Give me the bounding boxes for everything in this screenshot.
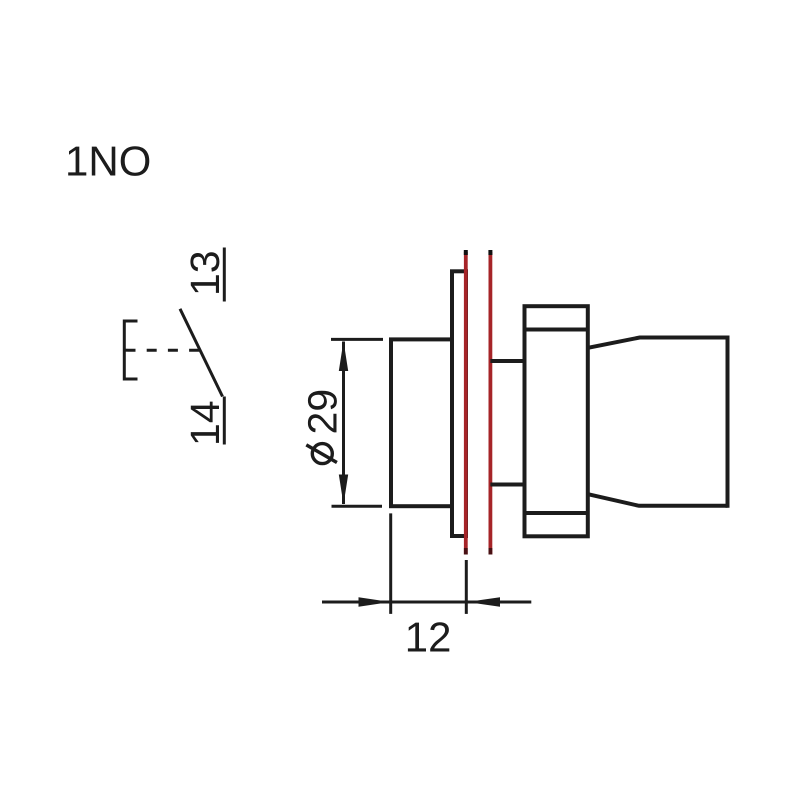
neck top line <box>490 359 526 363</box>
diameter symbol slash <box>306 445 337 463</box>
dim 29 arrowhead up <box>339 341 348 371</box>
contact symbol actuator bracket <box>124 321 137 379</box>
dim 29 arrowhead down <box>339 475 348 505</box>
mounting flange <box>452 271 466 536</box>
dim 29 top extension line <box>331 338 383 341</box>
contact symbol actuator dashed link <box>126 349 200 352</box>
dim 12 extension line left <box>389 513 392 614</box>
panel line 2 dark bottom tip <box>488 548 492 555</box>
terminal 14 lead <box>223 397 226 445</box>
label 14 <box>191 402 219 443</box>
dim 12 arrowhead right-pointing <box>359 597 391 606</box>
body (bushing) <box>525 306 588 536</box>
terminal 13 lead <box>223 248 226 302</box>
dim 12 dimension line <box>322 601 531 604</box>
panel line 1 black tip <box>464 250 468 255</box>
rear housing right edge <box>726 336 730 508</box>
dim label 29 (rotated) <box>308 391 337 433</box>
diameter symbol circle <box>312 444 332 464</box>
label 13 <box>190 252 219 293</box>
panel line 2 (red) <box>488 252 492 555</box>
dim 12 extension line right <box>465 560 468 614</box>
neck bottom line <box>490 483 526 487</box>
rear housing taper top <box>588 338 728 348</box>
dim 12 arrowhead left-pointing <box>467 597 500 606</box>
dim 29 bottom extension line <box>332 505 383 508</box>
body inner line bottom <box>525 511 588 515</box>
dim label 12 <box>408 622 449 651</box>
dim 29 dimension line <box>342 342 345 505</box>
contact blade (NO) <box>180 309 223 397</box>
label 1NO <box>68 146 149 176</box>
panel line 1 (red) <box>464 252 468 555</box>
panel line 2 black tip <box>488 250 492 255</box>
panel line 1 dark bottom tip <box>464 548 468 555</box>
rear housing taper bottom <box>588 494 728 506</box>
button cap <box>391 339 452 506</box>
body inner line top <box>525 328 588 332</box>
